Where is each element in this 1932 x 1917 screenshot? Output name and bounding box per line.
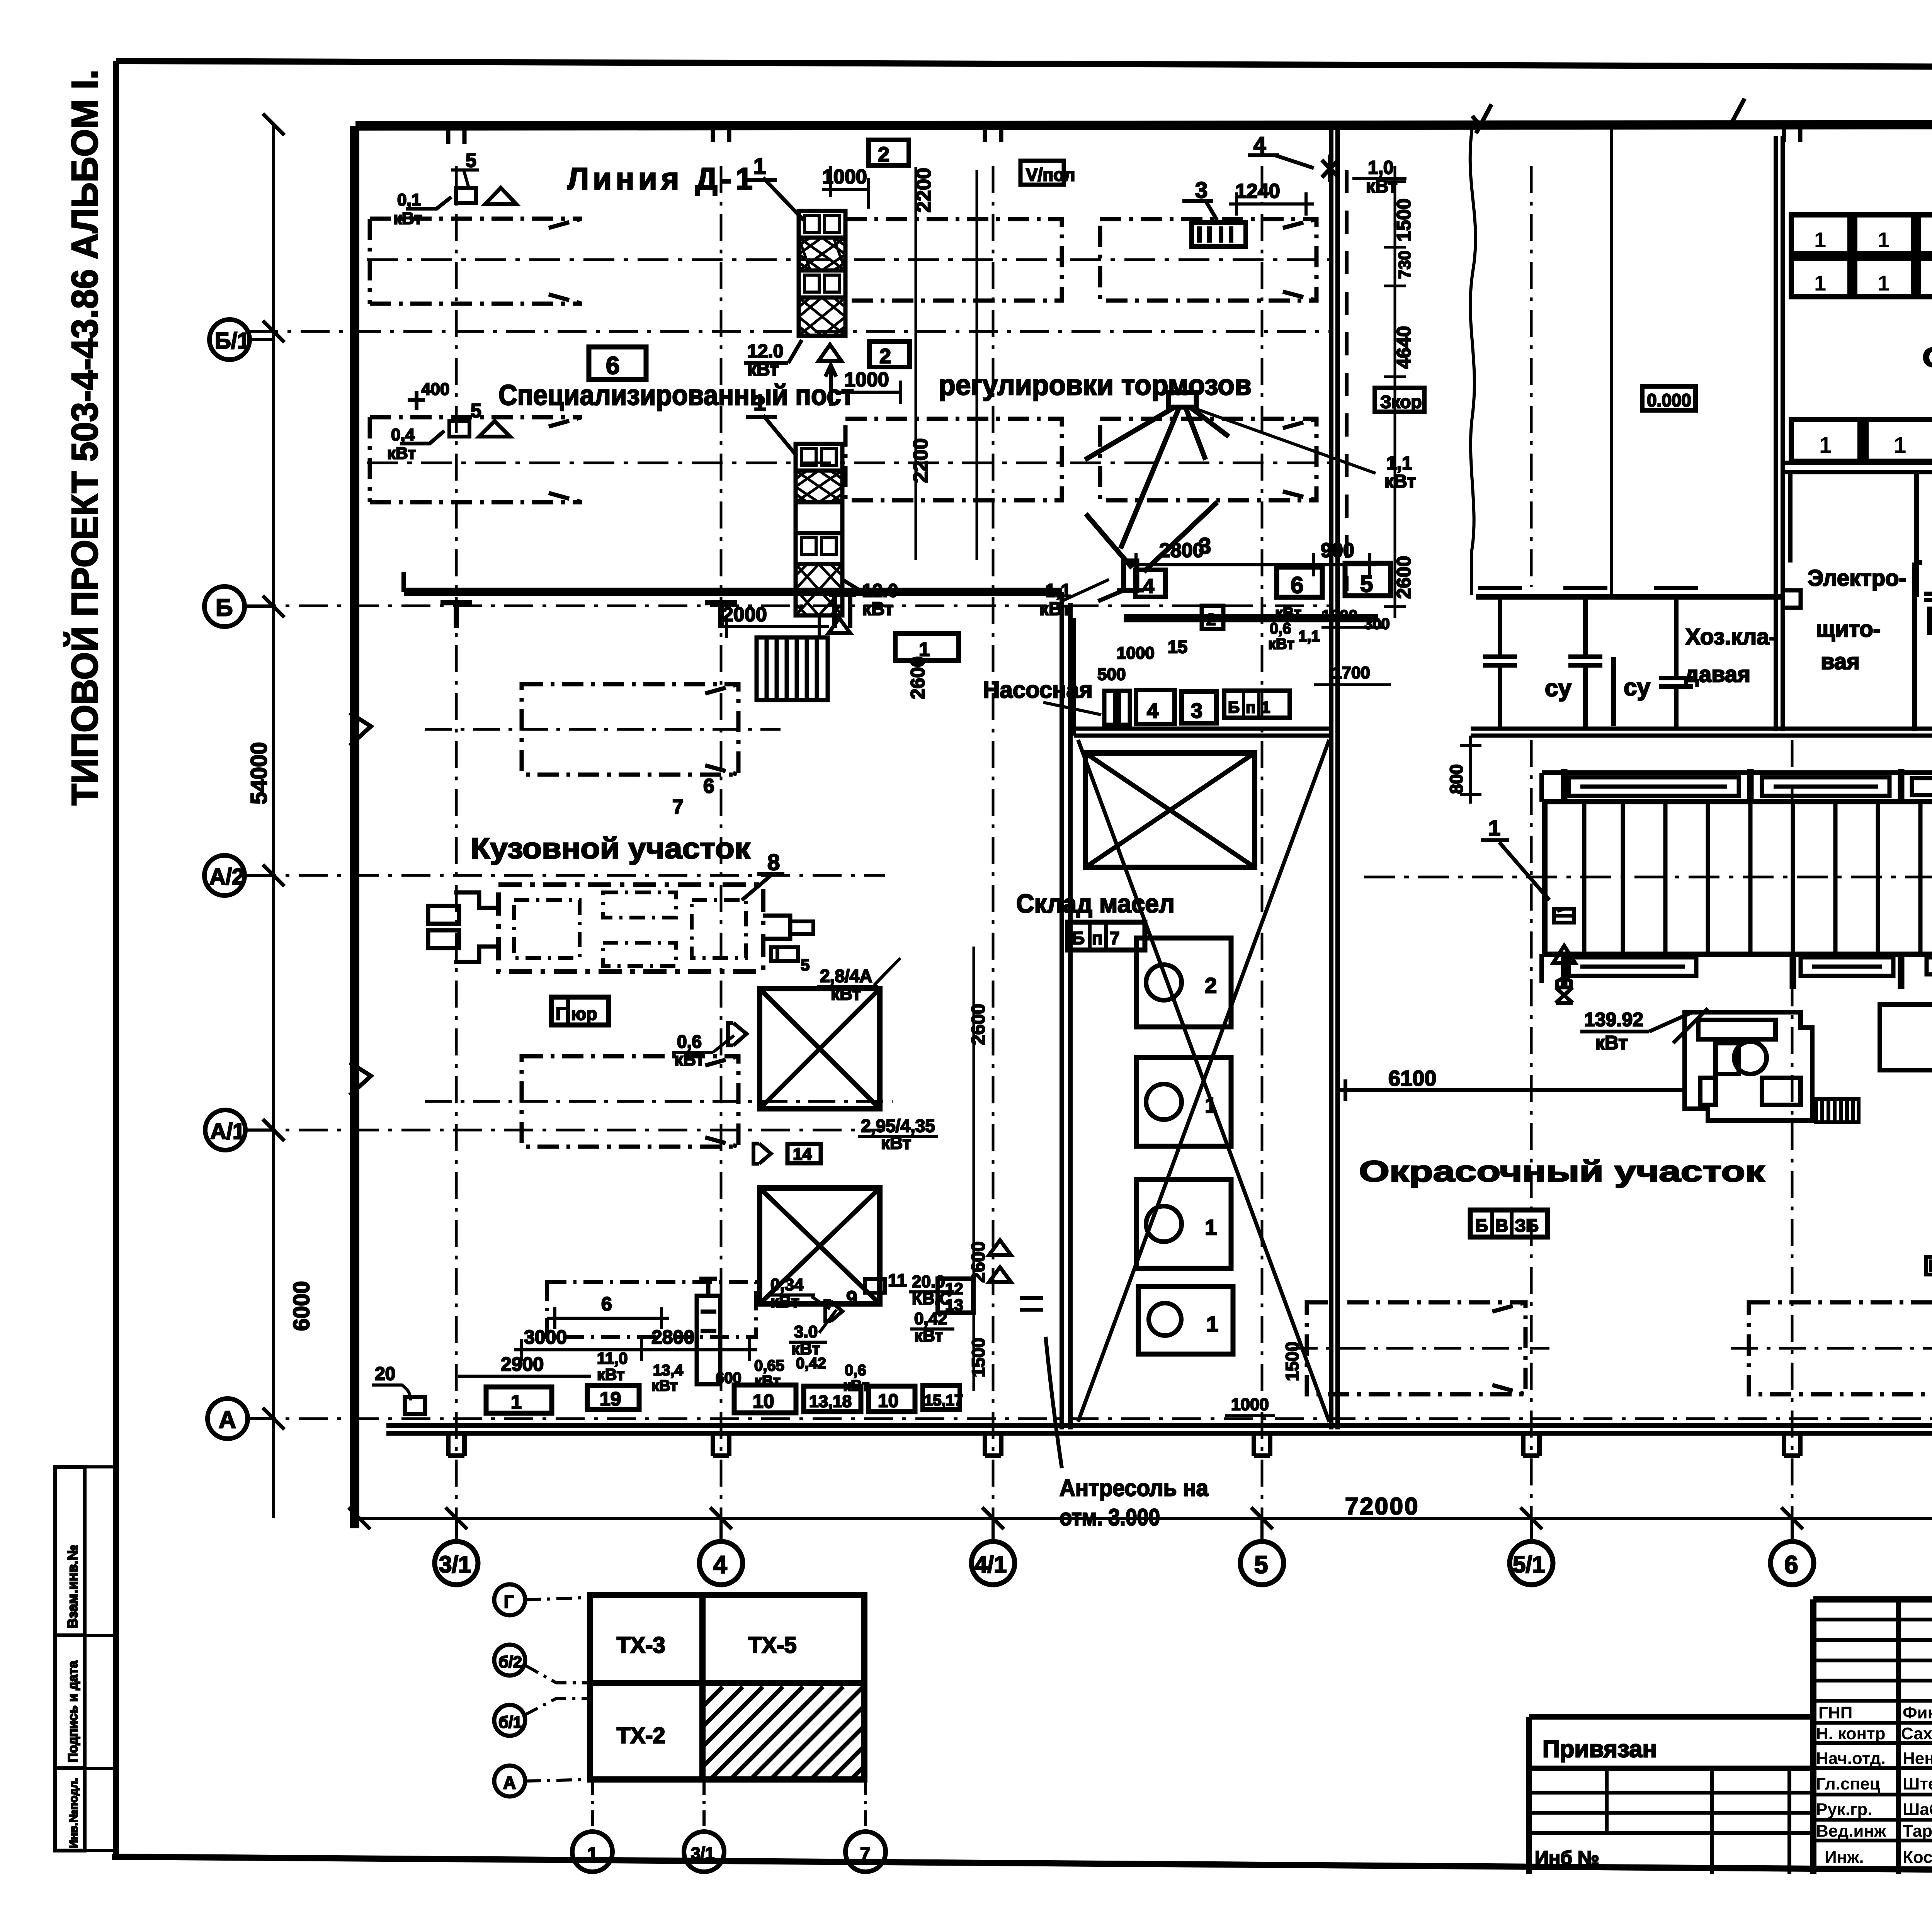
svg-text:9: 9 (846, 1287, 857, 1310)
svg-text:1: 1 (1205, 1215, 1217, 1239)
axis circle A/2 (204, 855, 245, 896)
svg-text:Гл.спец: Гл.спец (1816, 1774, 1880, 1793)
top wall pilasters (448, 124, 1932, 144)
I-beam column 2 (1563, 588, 1607, 729)
svg-text:12: 12 (945, 1280, 963, 1298)
small power tag kv row1 (406, 188, 516, 209)
svg-text:кВт: кВт (1384, 471, 1416, 492)
svg-text:2800: 2800 (651, 1326, 694, 1348)
horn icon (728, 1023, 747, 1045)
lift column 1 (799, 211, 845, 336)
left icons column (1553, 909, 1575, 1003)
svg-text:2000: 2000 (722, 603, 767, 626)
svg-text:ЗБ: ЗБ (1515, 1215, 1539, 1236)
svg-text:Финкер: Финкер (1903, 1703, 1932, 1722)
svg-text:ТХ-3: ТХ-3 (617, 1633, 665, 1658)
svg-text:13,18: 13,18 (809, 1392, 852, 1411)
bottom axis circle 4/1 (971, 1541, 1015, 1585)
svg-text:кВт: кВт (862, 599, 894, 619)
svg-text:7: 7 (860, 1844, 871, 1864)
svg-text:4/1: 4/1 (975, 1552, 1007, 1577)
title columns roles/names/sign (1898, 1599, 1932, 1874)
svg-text:1: 1 (753, 390, 766, 415)
stamp connector ticks (85, 1467, 116, 1851)
svg-text:6: 6 (1291, 572, 1303, 598)
axis dash-dot vertical 6 (1791, 740, 1794, 1541)
svg-text:Тарасова: Тарасова (1903, 1822, 1932, 1841)
small marks at 2650 3380 (1020, 1298, 1043, 1310)
paint machine dividers (1584, 802, 1932, 954)
OGS room left wall (1914, 473, 1919, 597)
key bottom circle 3/1 (684, 1832, 724, 1872)
nasos room bottom wall (1074, 618, 1331, 736)
privyazan grid cols (1607, 1768, 1789, 1874)
svg-text:1: 1 (753, 154, 766, 179)
svg-text:2: 2 (1206, 610, 1216, 629)
svg-text:Кузовной участок: Кузовной участок (471, 832, 751, 865)
key circle б/1 (494, 1705, 525, 1736)
axis dash-dot horizontal A (247, 1417, 1932, 1420)
OGS bottom wall (kraska top) (1924, 594, 1932, 600)
svg-text:0,34: 0,34 (770, 1275, 804, 1294)
corridor wall pair x3445 full height (1331, 126, 1338, 1429)
svg-text:Б: Б (216, 595, 233, 621)
svg-text:0.000: 0.000 (1647, 390, 1691, 410)
I-beam column 3 (1654, 588, 1698, 729)
car centerline kuzov 2 (425, 1100, 893, 1103)
box 12,13 above row (938, 1279, 973, 1313)
SU partition 2 (1611, 657, 1616, 726)
left margin stamp box 1 (55, 1467, 85, 1635)
svg-text:кВт: кВт (387, 444, 416, 463)
svg-text:Специализированный пост: Специализированный пост (498, 379, 854, 411)
bottom dim ticks (349, 1507, 1932, 1529)
name texts (1901, 1703, 1932, 1867)
svg-text:Нач.отд.: Нач.отд. (1816, 1749, 1886, 1768)
svg-text:2: 2 (878, 143, 889, 166)
svg-text:12.0: 12.0 (862, 581, 898, 601)
equip 1P box row1 (1192, 223, 1246, 246)
bottom vertical device (697, 1279, 720, 1384)
axis dash-dot horizontal B (247, 605, 1333, 607)
svg-text:Вед.инж: Вед.инж (1816, 1822, 1886, 1841)
axis circle B (204, 586, 245, 627)
V/pol box (1020, 161, 1064, 185)
svg-text:Подпись и дата: Подпись и дата (66, 1660, 80, 1762)
svg-text:54000: 54000 (247, 742, 272, 804)
label box Б/п-7 (1068, 922, 1145, 950)
triangle lift2 (829, 618, 850, 633)
dashed inner line top hall right (1345, 170, 1349, 591)
svg-text:давая: давая (1685, 662, 1750, 687)
svg-text:7: 7 (1110, 928, 1120, 948)
svg-text:0,65: 0,65 (754, 1357, 784, 1374)
svg-text:900: 900 (1321, 539, 1354, 562)
car box row1 left (370, 219, 582, 304)
svg-text:1: 1 (1819, 433, 1832, 458)
left building wall (350, 126, 359, 1528)
svg-text:Электро-: Электро- (1808, 566, 1906, 591)
bottom wall pilasters (448, 1433, 1932, 1456)
paint line centerline (1364, 876, 1932, 879)
svg-text:Инв.№подл.: Инв.№подл. (67, 1778, 80, 1848)
paint machine top rail (1542, 773, 1932, 802)
sklad reziny bottom rack line (1783, 463, 1932, 472)
svg-text:Н. контр: Н. контр (1816, 1724, 1886, 1743)
axis dash-dot horizontal A/2 (247, 874, 885, 877)
axis circle connectors (245, 340, 274, 1419)
svg-text:Б: Б (1475, 1215, 1488, 1236)
left margin stamp box 2 (55, 1635, 85, 1768)
svg-text:2600: 2600 (968, 1004, 989, 1045)
nasos box 4 (1136, 690, 1175, 724)
svg-text:13,4: 13,4 (653, 1362, 684, 1379)
axis dash-dot vertical 3/1 (455, 166, 458, 1541)
small icon box paint (1926, 1257, 1932, 1275)
svg-text:кВт: кВт (1039, 599, 1071, 619)
svg-text:1: 1 (1894, 433, 1906, 458)
svg-text:1: 1 (587, 1844, 598, 1864)
boxes 4 6 5 above wall (1135, 570, 1165, 597)
svg-text:20: 20 (375, 1364, 395, 1384)
svg-text:Ненахов: Ненахов (1903, 1749, 1932, 1768)
svg-text:В: В (1495, 1215, 1508, 1236)
svg-text:Склад масел: Склад масел (1016, 889, 1175, 918)
svg-text:А: А (503, 1773, 516, 1793)
svg-text:Рук.гр.: Рук.гр. (1816, 1800, 1872, 1819)
svg-text:10: 10 (753, 1390, 774, 1412)
thin vertical line corridor 4171 (1610, 127, 1613, 595)
svg-text:0,6: 0,6 (845, 1362, 866, 1379)
title outer box (1813, 1599, 1932, 1874)
svg-text:Штелин: Штелин (1903, 1774, 1932, 1793)
svg-text:0,6: 0,6 (1270, 620, 1291, 637)
corridor box 1 (895, 634, 959, 661)
svg-text:Антресоль на: Антресоль на (1060, 1475, 1209, 1501)
svg-text:А/2: А/2 (209, 864, 244, 889)
title thin top rows (1813, 1620, 1932, 1701)
car centerline paint left (1291, 1347, 1549, 1350)
svg-text:су: су (1545, 675, 1571, 702)
left dim ticks (263, 114, 284, 1429)
free column P at lift line (829, 595, 856, 628)
svg-text:1: 1 (1261, 698, 1270, 716)
label 1 leader row2 (746, 415, 797, 456)
svg-text:1240: 1240 (1235, 180, 1280, 202)
car box row1 mid (845, 219, 1062, 301)
svg-text:5: 5 (466, 150, 476, 171)
svg-text:15: 15 (1168, 637, 1187, 657)
axis dash-dot vertical 5/1 (1530, 166, 1533, 1541)
svg-text:6: 6 (606, 352, 620, 379)
X-box kuzov 2 (760, 1188, 880, 1304)
svg-text:7: 7 (672, 796, 684, 818)
triangles near corridor (989, 1240, 1011, 1282)
svg-text:3: 3 (1191, 699, 1202, 722)
key circle б/2 (494, 1645, 525, 1676)
svg-text:ГНП: ГНП (1818, 1703, 1852, 1722)
privyazan grid rows (1529, 1793, 1813, 1833)
car box row1 right (1100, 219, 1316, 301)
svg-text:10: 10 (878, 1391, 898, 1411)
svg-text:вая: вая (1821, 649, 1860, 674)
svg-text:п: п (1092, 928, 1103, 948)
kraska equip box 1a (1930, 609, 1932, 632)
antresol leader (1046, 1337, 1062, 1468)
paint machine posts top (1564, 769, 1932, 802)
svg-text:Г: Г (504, 1592, 514, 1612)
left dimension line 54000 (272, 124, 275, 1518)
svg-text:Линия Д-1: Линия Д-1 (567, 161, 757, 196)
car box row2 left (370, 417, 582, 502)
small 5 box (771, 947, 798, 961)
svg-text:2600: 2600 (968, 1241, 989, 1283)
wall x4596 top band (corridor to sklad) (1776, 136, 1783, 731)
role texts (1816, 1703, 1886, 1867)
svg-text:13: 13 (945, 1296, 963, 1314)
svg-text:400: 400 (421, 380, 449, 399)
label box Г/юр (551, 997, 609, 1025)
svg-text:0,1: 0,1 (397, 190, 421, 209)
svg-text:1: 1 (1878, 271, 1889, 295)
box 14 (787, 1144, 821, 1163)
axis dash-dot horizontal B/1 (249, 330, 1333, 333)
svg-text:Зкор: Зкор (1380, 392, 1422, 412)
number box 6 (589, 347, 646, 379)
svg-text:19: 19 (600, 1388, 621, 1410)
title role rows (1813, 1723, 1932, 1841)
top building wall (355, 124, 1932, 126)
svg-text:2800: 2800 (1159, 539, 1204, 562)
corridor wall pair x2748 (1062, 592, 1070, 1429)
svg-text:кВт: кВт (651, 1377, 678, 1394)
axis circle B/1 (209, 319, 250, 360)
svg-text:А/1: А/1 (210, 1119, 245, 1144)
dim 1000 row1 (822, 166, 869, 209)
door notch elektro (1785, 590, 1801, 608)
svg-text:1: 1 (1206, 1312, 1218, 1336)
pilaster T at 3/1 on B wall (440, 603, 472, 628)
svg-text:8: 8 (767, 850, 780, 875)
triangle and arrow lift1 (818, 345, 842, 361)
lower wall under SU rooms and elektro (1471, 729, 1932, 736)
svg-text:0,4: 0,4 (391, 425, 415, 444)
svg-text:кВт: кВт (1268, 636, 1294, 653)
brake tester machine arms (1085, 393, 1229, 601)
svg-text:1500: 1500 (1282, 1342, 1302, 1381)
wall below B axis left segment (404, 588, 1062, 596)
lift column 2 (796, 444, 842, 615)
axis dash-dot vertical 4 (720, 166, 723, 1541)
key circle Г (494, 1584, 525, 1615)
key circle А (494, 1766, 525, 1796)
I-beam column 1 (1478, 588, 1522, 729)
svg-text:5/1: 5/1 (1513, 1552, 1545, 1577)
svg-text:Склад резины: Склад резины (1922, 342, 1932, 373)
svg-text:5: 5 (471, 400, 481, 421)
svg-text:4: 4 (713, 1551, 727, 1579)
svg-text:5: 5 (801, 956, 810, 974)
svg-text:5: 5 (1360, 571, 1373, 597)
svg-text:V/пол: V/пол (1026, 165, 1075, 185)
axis circle A (207, 1399, 248, 1439)
svg-text:кВт: кВт (1275, 605, 1301, 622)
svg-text:1: 1 (919, 639, 930, 660)
key bottom circle 7 (845, 1832, 886, 1872)
svg-text:1700: 1700 (1332, 663, 1370, 682)
horn icon 3 (825, 1301, 842, 1321)
svg-text:1,0: 1,0 (1368, 158, 1394, 178)
svg-text:б/2: б/2 (498, 1653, 522, 1671)
paint car box right (1749, 1302, 1932, 1394)
wall below B axis right segment (1124, 614, 1378, 622)
svg-text:2: 2 (879, 345, 891, 368)
svg-text:2200: 2200 (910, 438, 932, 483)
bottom machine dash car (547, 1282, 756, 1337)
wash machine stair hatch (1816, 1099, 1859, 1122)
svg-text:Г: Г (556, 1004, 566, 1024)
tire rack row 2 cells (1791, 258, 1932, 297)
svg-text:72000: 72000 (1345, 1493, 1419, 1520)
svg-text:6: 6 (703, 775, 714, 797)
svg-text:су: су (1624, 674, 1650, 701)
key plan divider vertical (699, 1595, 706, 1779)
bottom axis circle 6 (1770, 1541, 1814, 1585)
svg-text:Окрасочный участок: Окрасочный участок (1359, 1155, 1765, 1188)
long cross diagonals storage (1078, 740, 1329, 1422)
svg-text:5: 5 (1254, 1551, 1268, 1579)
car centerline paint right (1731, 1347, 1932, 1350)
box 2 mid (869, 342, 910, 367)
left margin stamp box 3 (55, 1768, 85, 1851)
svg-text:3/1: 3/1 (691, 1844, 714, 1863)
Privyazan box (1529, 1717, 1813, 1874)
box Zkor (1375, 388, 1424, 412)
paint car box left (1307, 1302, 1526, 1394)
Склад масел X-tank (1085, 753, 1255, 867)
svg-text:1000: 1000 (1231, 1395, 1269, 1414)
bottom dimension line 72000 (359, 1517, 1932, 1520)
svg-text:Инж.: Инж. (1825, 1848, 1864, 1867)
svg-text:1,1: 1,1 (1386, 453, 1412, 474)
svg-text:Б: Б (1228, 698, 1240, 716)
svg-text:3/1: 3/1 (439, 1552, 471, 1577)
svg-text:2900: 2900 (501, 1353, 544, 1375)
svg-text:б/1: б/1 (498, 1713, 522, 1731)
svg-text:Привязан: Привязан (1543, 1736, 1657, 1762)
car box kuzov 1 (522, 684, 738, 775)
svg-text:800: 800 (1446, 764, 1466, 794)
bottom axis circle 3/1 (435, 1541, 478, 1585)
oil tank box 1 (1136, 938, 1231, 1027)
car box row2 right (brake tester bay) (1100, 419, 1316, 500)
svg-text:1: 1 (511, 1391, 522, 1413)
small power tag kv row2 (400, 391, 510, 444)
svg-text:Насосная: Насосная (983, 677, 1093, 703)
wash machine 139.92 (1685, 1012, 1812, 1120)
bottom equip row (486, 1387, 552, 1413)
bottom building wall double (386, 1426, 1932, 1433)
svg-text:3000: 3000 (524, 1326, 567, 1348)
svg-text:кВт: кВт (1595, 1032, 1628, 1054)
svg-text:кВт: кВт (597, 1365, 624, 1383)
wall break marks left wall (350, 713, 371, 1095)
svg-text:ТХ-2: ТХ-2 (617, 1723, 665, 1748)
corridor box 2 (1202, 606, 1223, 629)
svg-text:1: 1 (1814, 271, 1826, 295)
svg-text:2,8/4А: 2,8/4А (820, 966, 872, 986)
svg-text:1: 1 (1488, 816, 1500, 840)
nasos box Б/п-1 (1224, 691, 1290, 718)
svg-text:6100: 6100 (1388, 1066, 1437, 1090)
stair well hatched (757, 637, 828, 700)
bottom axis circle 5 (1240, 1541, 1284, 1585)
car centerline kuzov 1 (425, 728, 781, 731)
svg-text:Шаблинск: Шаблинск (1903, 1800, 1932, 1819)
svg-text:4: 4 (1143, 575, 1154, 598)
svg-text:14: 14 (793, 1145, 812, 1164)
svg-text:730: 730 (1395, 251, 1414, 279)
svg-text:юр: юр (571, 1004, 597, 1024)
tire rack row 1 cells (1791, 215, 1932, 253)
svg-text:Взам.инв.№: Взам.инв.№ (65, 1545, 80, 1628)
svg-text:Сахновская: Сахновская (1901, 1724, 1932, 1743)
top mid break mark (1472, 99, 1745, 133)
svg-text:1500: 1500 (968, 1338, 988, 1377)
car box row2 mid (845, 419, 1062, 500)
label 1 leader row1 (746, 178, 804, 220)
svg-text:Б/1: Б/1 (215, 328, 250, 353)
frame straightening machine (428, 885, 813, 972)
key plan outer box (590, 1595, 864, 1779)
row1 centerline (367, 258, 1329, 261)
nasos box 3 (1182, 692, 1216, 723)
svg-text:1: 1 (1878, 228, 1889, 252)
bottom axis circle 5/1 (1510, 1541, 1553, 1585)
svg-text:регулировки тормозов: регулировки тормозов (939, 369, 1252, 401)
SU rooms top wall (1476, 594, 1783, 600)
axis dash-dot vertical 4/1 (992, 166, 995, 1541)
svg-text:1: 1 (1205, 1093, 1217, 1117)
box 2 row1 (869, 140, 909, 165)
tire rack row 3 cells (1791, 420, 1932, 461)
svg-text:Кострубин: Кострубин (1903, 1848, 1932, 1867)
X-box kuzov 1 (760, 989, 880, 1109)
svg-text:щито-: щито- (1816, 617, 1881, 642)
svg-text:1,1: 1,1 (1298, 628, 1320, 645)
svg-text:1000: 1000 (822, 166, 867, 188)
key bottom circle 1 (572, 1832, 612, 1872)
svg-text:6: 6 (1784, 1551, 1798, 1579)
svg-text:ТИПОВОЙ ПРОЕКТ 503-4-43.86 АЛЬ: ТИПОВОЙ ПРОЕКТ 503-4-43.86 АЛЬБОМ I. (63, 70, 105, 806)
svg-text:12.0: 12.0 (747, 341, 783, 362)
svg-text:ТХ-5: ТХ-5 (748, 1633, 797, 1658)
svg-text:Б: Б (1072, 928, 1085, 948)
svg-text:0,6: 0,6 (677, 1032, 702, 1052)
svg-text:0,42: 0,42 (796, 1355, 826, 1372)
svg-text:2: 2 (1205, 973, 1217, 998)
khoz kladovaya right wall (1915, 563, 1922, 731)
axis dash-dot vertical 5 (1261, 166, 1264, 1541)
svg-text:Инб №: Инб № (1535, 1847, 1599, 1869)
svg-text:4: 4 (1147, 699, 1158, 722)
oil tank box 4 (1138, 1286, 1233, 1354)
horn icon 2 (753, 1144, 771, 1164)
key plan hatched cell (702, 1687, 864, 1779)
key plan divider horizontal (590, 1680, 864, 1686)
pilaster T at 4 on B wall (705, 603, 737, 628)
axis circle A/1 (205, 1110, 245, 1150)
